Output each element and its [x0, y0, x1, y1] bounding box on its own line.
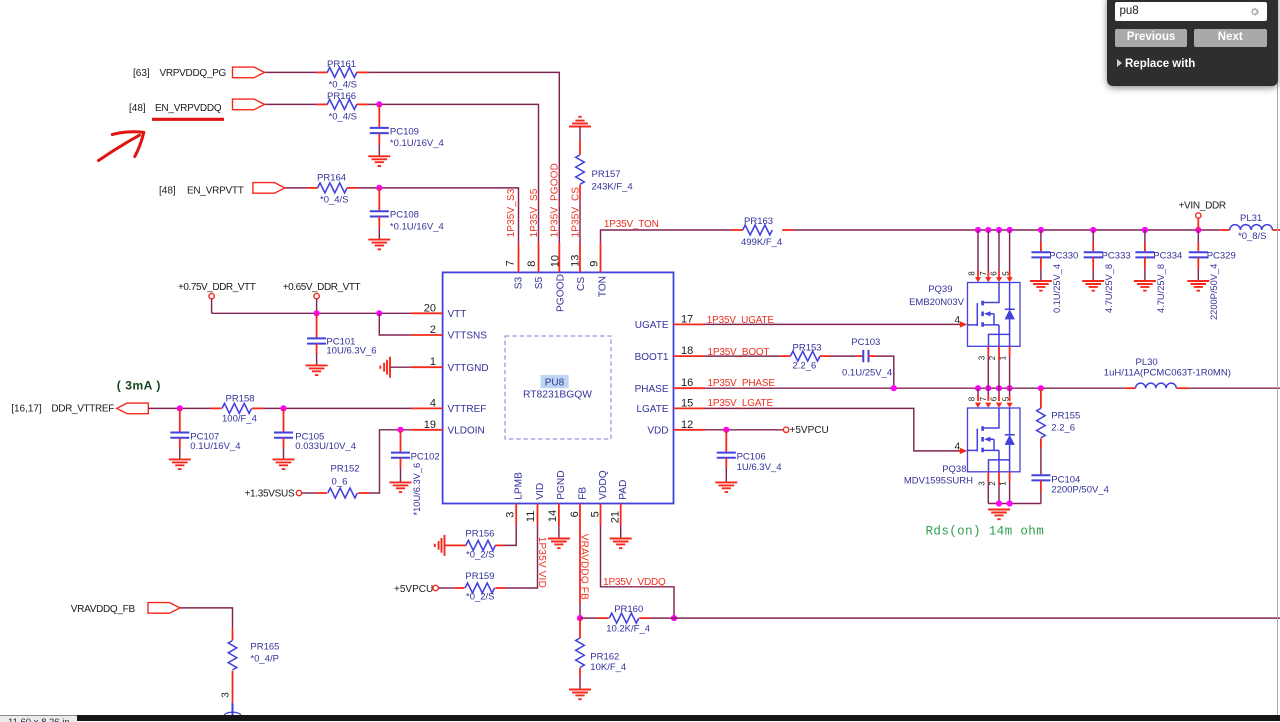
- svg-text:VLDOIN: VLDOIN: [448, 426, 485, 437]
- capacitor PC102: [400, 430, 402, 452]
- svg-text:6: 6: [569, 511, 581, 517]
- annotation red underline: [152, 118, 224, 121]
- svg-text:PR153: PR153: [793, 343, 822, 354]
- svg-text:9: 9: [589, 261, 601, 267]
- svg-text:2: 2: [988, 481, 997, 486]
- svg-text:PL31: PL31: [1240, 213, 1262, 224]
- capacitor PC106: [725, 430, 727, 452]
- Next button: [1194, 29, 1267, 47]
- junction TON/PC329: [1195, 227, 1201, 233]
- svg-text:1P35V_BOOT: 1P35V_BOOT: [708, 347, 770, 358]
- junction VTT/VTTSNS: [376, 310, 382, 316]
- page size indicator box: [0, 715, 77, 722]
- IC pin 4 VTTREF stub: [411, 407, 443, 409]
- svg-text:1P35V_LGATE: 1P35V_LGATE: [708, 398, 774, 409]
- svg-text:4: 4: [955, 441, 961, 452]
- ground below PC105: [273, 459, 295, 469]
- svg-text:5: 5: [590, 511, 602, 517]
- svg-text:17: 17: [681, 313, 693, 325]
- svg-text:PC108: PC108: [390, 210, 419, 221]
- svg-text:6: 6: [990, 396, 999, 401]
- svg-text:*0_4/S: *0_4/S: [320, 195, 349, 206]
- svg-text:1P35V_S5: 1P35V_S5: [529, 188, 540, 237]
- svg-text:1P35V_CS: 1P35V_CS: [570, 187, 581, 238]
- svg-text:[63]: [63]: [133, 68, 150, 79]
- svg-text:4: 4: [430, 397, 436, 409]
- wire PR157 to CS pin: [579, 198, 581, 243]
- svg-text:PAD: PAD: [618, 480, 629, 500]
- wire output net to right edge (y=618.1): [674, 617, 1280, 619]
- svg-text:LGATE: LGATE: [636, 404, 668, 415]
- svg-text:1P35V_PGOOD: 1P35V_PGOOD: [550, 163, 561, 237]
- svg-text:PR157: PR157: [592, 169, 621, 180]
- annotation hand-drawn red arrow: [99, 132, 144, 161]
- ground below PQ38: [988, 510, 1010, 520]
- svg-text:100/F_4: 100/F_4: [222, 413, 257, 424]
- svg-text:+5VPCU: +5VPCU: [394, 584, 433, 595]
- wire EN_VRPVTT net (y=187.9): [284, 187, 306, 189]
- ground at PAD pin 21: [620, 526, 622, 539]
- svg-text:1P35V_PHASE: 1P35V_PHASE: [708, 378, 776, 389]
- wire PR164 to S3 pin: [358, 188, 519, 243]
- svg-text:21: 21: [609, 511, 621, 523]
- wire VDDQ to 1P35V_VDDQ: [601, 526, 675, 619]
- junction TON/PQ39-7: [985, 227, 991, 233]
- ground below PR162: [569, 690, 591, 700]
- svg-text:243K/F_4: 243K/F_4: [592, 182, 633, 193]
- svg-text:7: 7: [979, 271, 988, 276]
- junction TON/PQ39-6: [996, 227, 1002, 233]
- wire PR166 to S5 pin: [369, 104, 539, 242]
- svg-text:S5: S5: [534, 277, 545, 290]
- page right edge line: [1277, 0, 1278, 715]
- wire PQ38 source ground bus: [988, 503, 1041, 505]
- ground below PC107: [169, 459, 191, 469]
- svg-text:*0_4/S: *0_4/S: [329, 80, 358, 91]
- capacitor PC329: [1197, 230, 1199, 242]
- junction VTTREF/PC105: [280, 405, 286, 411]
- svg-text:VTTREF: VTTREF: [448, 404, 487, 415]
- capacitor PC104: [1031, 475, 1050, 480]
- off-page connector DDR_VTTREF: [117, 403, 149, 414]
- wire PR156 to LPMB pin 3: [505, 526, 516, 546]
- capacitor PC330: [1040, 230, 1042, 242]
- junction VDDQ/PR160/output: [671, 615, 677, 621]
- junction TON/PC333: [1090, 227, 1096, 233]
- IC pin 17 UGATE stub: [674, 323, 706, 325]
- svg-text:TON: TON: [597, 276, 608, 297]
- wire PR158 to VTTREF pin: [263, 407, 411, 409]
- svg-text:7: 7: [505, 260, 517, 266]
- svg-text:10.2K/F_4: 10.2K/F_4: [606, 624, 650, 635]
- signal ground at VTTGND pin 1: [380, 357, 390, 378]
- svg-text:PR159: PR159: [465, 571, 494, 582]
- capacitor PC108: [378, 188, 380, 211]
- svg-text:PR162: PR162: [590, 651, 619, 662]
- ground below PC106: [715, 482, 737, 492]
- svg-text:VDDQ: VDDQ: [598, 470, 609, 500]
- svg-text:0.1U/25V_4: 0.1U/25V_4: [1052, 264, 1062, 313]
- svg-text:CS: CS: [576, 277, 587, 291]
- svg-text:PC330: PC330: [1049, 251, 1078, 262]
- resistor PR160: [580, 617, 597, 619]
- svg-text:2200P/50V_4: 2200P/50V_4: [1051, 485, 1109, 496]
- svg-text:1P35V_S3: 1P35V_S3: [506, 188, 517, 237]
- svg-text:10U/6.3V_6: 10U/6.3V_6: [326, 346, 376, 357]
- svg-text:PQ38: PQ38: [942, 464, 966, 475]
- svg-text:PR163: PR163: [744, 216, 773, 227]
- junction PHASE/PQ39-3: [985, 385, 991, 391]
- svg-text:+1.35VSUS: +1.35VSUS: [245, 489, 295, 500]
- svg-text:PC102: PC102: [411, 452, 440, 463]
- ground below PC333: [1082, 281, 1104, 291]
- IC pin 20 VTT stub: [411, 312, 443, 314]
- svg-text:*0.1U/16V_4: *0.1U/16V_4: [390, 222, 444, 233]
- junction PHASE/PQ38-8: [975, 385, 981, 391]
- svg-text:EN_VRPVDDQ: EN_VRPVDDQ: [155, 103, 222, 114]
- svg-text:18: 18: [681, 345, 693, 357]
- IC bottom pin stubs 3 11 14 6 5 21: [515, 504, 517, 526]
- svg-text:11: 11: [525, 511, 537, 522]
- bottom black bar: [0, 715, 1280, 721]
- svg-text:3: 3: [977, 481, 986, 486]
- partial component below PR165 (cut off): [232, 703, 234, 715]
- IC top pin stubs 7 8 10 13 9: [518, 243, 520, 273]
- svg-text:PC109: PC109: [390, 126, 419, 137]
- svg-text:VTTGND: VTTGND: [448, 363, 489, 374]
- svg-text:PGND: PGND: [556, 470, 567, 499]
- Replace with row: [1117, 58, 1196, 70]
- IC pin 19 VLDOIN stub: [411, 429, 443, 431]
- svg-text:VRAVDDQ_FB: VRAVDDQ_FB: [71, 604, 136, 615]
- svg-text:1P35V_VDDQ: 1P35V_VDDQ: [603, 577, 666, 588]
- wires PQ38 top pin drops: [977, 388, 979, 395]
- svg-text:1P35V_TON: 1P35V_TON: [604, 219, 659, 230]
- svg-text:PR156: PR156: [465, 529, 494, 540]
- search input: [1115, 2, 1267, 22]
- svg-text:+0.65V_DDR_VTT: +0.65V_DDR_VTT: [283, 282, 361, 293]
- svg-text:[48]: [48]: [129, 103, 146, 114]
- svg-text:PGOOD: PGOOD: [555, 274, 566, 312]
- svg-text:2: 2: [430, 324, 436, 336]
- wire VLDOIN net: [369, 430, 411, 493]
- svg-text:10: 10: [549, 255, 561, 267]
- svg-text:PR160: PR160: [614, 604, 643, 615]
- ground below PC109: [368, 156, 390, 166]
- wire PR161 to PGOOD pin: [369, 72, 560, 242]
- svg-text:2.2_6: 2.2_6: [793, 360, 817, 371]
- svg-text:PR166: PR166: [327, 91, 356, 102]
- svg-text:1: 1: [999, 355, 1008, 360]
- svg-text:PC106: PC106: [737, 452, 766, 463]
- transistor PQ39 EMB20N03V body: [968, 283, 1021, 347]
- ground below PC102: [390, 482, 412, 492]
- resistor PR158: [211, 407, 222, 409]
- svg-text:[16,17]: [16,17]: [11, 403, 42, 414]
- svg-text:VRPVDDQ_PG: VRPVDDQ_PG: [160, 68, 227, 79]
- svg-text:*0_4/P: *0_4/P: [250, 654, 279, 665]
- svg-text:2.2_6: 2.2_6: [1051, 423, 1075, 434]
- IC pin 16 PHASE stub: [674, 387, 706, 389]
- svg-text:PR158: PR158: [226, 394, 255, 405]
- svg-text:*0.1U/16V_4: *0.1U/16V_4: [390, 138, 444, 149]
- svg-text:+VIN_DDR: +VIN_DDR: [1179, 201, 1226, 212]
- svg-text:MDV1595SURH: MDV1595SURH: [904, 475, 973, 486]
- resistor PR165: [232, 629, 234, 640]
- svg-text:RT8231BGQW: RT8231BGQW: [523, 389, 592, 400]
- resistor PR163: [731, 229, 743, 231]
- svg-text:4.7U/25V_8: 4.7U/25V_8: [1156, 264, 1166, 313]
- svg-text:PR164: PR164: [317, 173, 346, 184]
- IC pin 1 VTTGND stub: [411, 366, 443, 368]
- capacitor PC105: [283, 408, 285, 431]
- svg-text:13: 13: [569, 255, 581, 267]
- junction VLDOIN/PC102: [397, 427, 403, 433]
- off-page connector EN_VRPVTT: [253, 183, 285, 194]
- wire VTT bus (y=313.3): [212, 312, 412, 314]
- resistor PR155: [1040, 388, 1042, 408]
- svg-text:2200P/50V_4: 2200P/50V_4: [1209, 264, 1219, 320]
- wires PQ39 bottom pins to PHASE: [987, 346, 989, 357]
- junction TON/PC330: [1038, 227, 1044, 233]
- svg-text:4.7U/25V_8: 4.7U/25V_8: [1104, 264, 1114, 313]
- svg-text:8: 8: [967, 396, 976, 401]
- wire 1P35V_BOOT net: [705, 355, 780, 357]
- wire TON bus to +VIN_DDR and PL31: [794, 229, 1220, 231]
- svg-text:( 3mA ): ( 3mA ): [117, 379, 161, 393]
- IC pin 12 VDD stub: [674, 429, 706, 431]
- wire 1P35V_UGATE net: [705, 323, 960, 325]
- svg-text:PR155: PR155: [1051, 411, 1080, 422]
- svg-text:UGATE: UGATE: [635, 320, 669, 331]
- svg-text:VID: VID: [535, 483, 546, 500]
- resistor PR152: [302, 492, 317, 494]
- svg-text:VDD: VDD: [647, 426, 668, 437]
- junction FB/PR160/PR162: [577, 615, 583, 621]
- resistor PR161: [316, 71, 327, 73]
- svg-text:PC334: PC334: [1153, 251, 1182, 262]
- svg-text:LPMB: LPMB: [514, 472, 525, 500]
- svg-text:EN_VRPVTT: EN_VRPVTT: [187, 186, 244, 197]
- svg-text:8: 8: [967, 271, 976, 276]
- capacitor PC103: [856, 355, 863, 357]
- svg-text:PR152: PR152: [331, 464, 360, 475]
- junction TON/PQ39-8: [975, 227, 981, 233]
- svg-text:5: 5: [1001, 271, 1010, 276]
- capacitor PC101: [316, 313, 318, 337]
- junction VTTREF/PC107: [177, 405, 183, 411]
- wire 1P35V_TON net (y=230): [601, 230, 732, 243]
- off-page connector EN_VRPVDDQ: [233, 99, 265, 110]
- svg-text:14: 14: [547, 510, 559, 522]
- svg-text:0.1U/25V_4: 0.1U/25V_4: [842, 368, 892, 379]
- wire 1P35V_LGATE net: [705, 408, 958, 451]
- svg-text:PHASE: PHASE: [635, 384, 669, 395]
- junction PHASE/PQ39-2: [996, 385, 1002, 391]
- capacitor PC109: [378, 104, 380, 127]
- junction bus/PQ38-1: [1007, 500, 1013, 506]
- signal ground at LPMB pin: [435, 535, 445, 556]
- svg-text:[48]: [48]: [159, 186, 176, 197]
- IC pin 18 BOOT1 stub: [674, 355, 706, 357]
- svg-text:*0_4/S: *0_4/S: [329, 112, 358, 123]
- wires PQ38 bottom pins to ground bus: [987, 472, 989, 482]
- resistor PR164: [307, 187, 318, 189]
- svg-text:PC103: PC103: [851, 337, 880, 348]
- svg-text:1: 1: [999, 481, 1008, 486]
- svg-text:0.1U/16V_4: 0.1U/16V_4: [190, 441, 240, 452]
- junction PHASE/PQ39-1: [1007, 385, 1013, 391]
- resistor PR159: [438, 587, 454, 589]
- svg-text:PL30: PL30: [1136, 357, 1158, 368]
- wire PR159 to VID pin 11: [506, 526, 538, 589]
- svg-text:VTTSNS: VTTSNS: [448, 331, 488, 342]
- wire VRPVDDQ_PG net (y=72.4): [264, 71, 316, 73]
- svg-text:8: 8: [526, 261, 538, 267]
- svg-text:3: 3: [221, 692, 232, 698]
- svg-text:PC333: PC333: [1102, 251, 1131, 262]
- inductor PL31: [1220, 229, 1230, 231]
- ground below PC101: [306, 365, 328, 375]
- resistor PR162: [579, 618, 581, 638]
- svg-text:+5VPCU: +5VPCU: [790, 425, 829, 436]
- off-page connector VRAVDDQ_FB: [148, 603, 180, 614]
- svg-text:15: 15: [681, 397, 693, 409]
- junction PHASE/PC103: [891, 385, 897, 391]
- junction bus/PQ38-2: [996, 500, 1002, 506]
- svg-text:1P35V_UGATE: 1P35V_UGATE: [707, 315, 775, 326]
- svg-text:7: 7: [979, 396, 988, 401]
- svg-text:1: 1: [430, 356, 436, 368]
- power tap +5VPCU (VDD): [783, 427, 788, 432]
- svg-text:+0.75V_DDR_VTT: +0.75V_DDR_VTT: [178, 282, 256, 293]
- svg-text:FB: FB: [577, 487, 588, 500]
- svg-text:16: 16: [681, 377, 693, 389]
- junction VDD/PC106: [723, 427, 729, 433]
- wire FB column down to PR162: [579, 526, 581, 605]
- svg-text:VTT: VTT: [448, 309, 467, 320]
- resistor PR166: [316, 103, 327, 105]
- wire VTTSNS drop: [379, 313, 411, 335]
- svg-text:*0_2/S: *0_2/S: [466, 550, 495, 561]
- svg-text:PR161: PR161: [327, 59, 356, 70]
- wire PR153 to PC103: [831, 355, 856, 357]
- svg-text:Rds(on) 14m ohm: Rds(on) 14m ohm: [926, 525, 1045, 539]
- wire VDD to +5VPCU: [705, 429, 783, 431]
- ground at PGND pin 14: [558, 526, 560, 539]
- svg-text:20: 20: [424, 302, 436, 314]
- wire VRAVDDQ_FB to PR165: [180, 608, 233, 629]
- ground below PC330: [1030, 281, 1052, 291]
- svg-text:12: 12: [681, 419, 693, 431]
- capacitor PC107: [179, 408, 181, 431]
- inductor PL30: [1125, 387, 1135, 389]
- resistor PR157: [579, 127, 581, 141]
- svg-text:PC329: PC329: [1207, 251, 1236, 262]
- off-page connector VRPVDDQ_PG: [233, 67, 265, 78]
- resistor PR156: [445, 544, 456, 546]
- capacitor PC334: [1144, 230, 1146, 242]
- ground below PC108: [368, 240, 390, 250]
- IC pin 15 LGATE stub: [674, 407, 706, 409]
- svg-text:BOOT1: BOOT1: [635, 352, 669, 363]
- wire PC103 to PHASE: [877, 356, 894, 388]
- svg-text:3: 3: [504, 512, 516, 518]
- svg-text:1U/6.3V_4: 1U/6.3V_4: [737, 462, 782, 473]
- ground below PC334: [1134, 281, 1156, 291]
- junction TON/PQ39-5: [1007, 227, 1013, 233]
- junction PR164/PC108: [376, 185, 382, 191]
- junction VTT/PC101: [314, 310, 320, 316]
- search highlight on PU8: [541, 375, 569, 388]
- svg-text:PR165: PR165: [250, 642, 279, 653]
- op-amp U1 -- IC PU8 RT8231BGQW body: [443, 272, 674, 503]
- svg-text:S3: S3: [514, 277, 525, 290]
- Previous button: [1115, 29, 1187, 47]
- IC pin 2 VTTSNS stub: [411, 334, 443, 336]
- svg-text:499K/F_4: 499K/F_4: [741, 237, 782, 248]
- transistor PQ38 MDV1595SURH body: [968, 408, 1021, 472]
- ground below PC329: [1187, 281, 1209, 291]
- wire DDR_VTTREF to PR158: [148, 407, 210, 409]
- ground above PR157: [569, 117, 591, 127]
- svg-text:4: 4: [955, 315, 961, 326]
- wire EN_VRPVDDQ net (y=104.4): [264, 103, 316, 105]
- junction PR166/PC109: [376, 101, 382, 107]
- wire 1P35V_PHASE net: [705, 387, 1125, 389]
- svg-text:2: 2: [988, 355, 997, 360]
- svg-text:*10U/6.3V_6: *10U/6.3V_6: [412, 463, 422, 516]
- svg-text:10K/F_4: 10K/F_4: [590, 662, 626, 673]
- svg-text:5: 5: [1001, 396, 1010, 401]
- junction TON/PC334: [1142, 227, 1148, 233]
- find/replace panel: [1107, 0, 1278, 86]
- gear icon: [1249, 6, 1261, 18]
- svg-text:6: 6: [990, 271, 999, 276]
- svg-text:19: 19: [424, 419, 436, 431]
- svg-text:0_6: 0_6: [332, 477, 348, 488]
- svg-text:0.033U/10V_4: 0.033U/10V_4: [295, 441, 356, 452]
- wires PQ39 top pin drops: [977, 230, 979, 271]
- svg-text:3: 3: [977, 355, 986, 360]
- svg-text:*0_8/S: *0_8/S: [1238, 231, 1267, 242]
- svg-text:*0_2/S: *0_2/S: [466, 592, 495, 603]
- svg-text:DDR_VTTREF: DDR_VTTREF: [51, 403, 114, 414]
- resistor PR153: [780, 355, 791, 357]
- svg-text:1uH/11A(PCMC063T-1R0MN): 1uH/11A(PCMC063T-1R0MN): [1104, 368, 1231, 379]
- junction PHASE/PR155: [1038, 385, 1044, 391]
- IC PU8 dashed value box: [505, 336, 611, 439]
- svg-text:PU8: PU8: [545, 377, 565, 388]
- svg-text:PQ39: PQ39: [928, 284, 952, 295]
- capacitor PC333: [1092, 230, 1094, 242]
- svg-text:EMB20N03V: EMB20N03V: [909, 297, 965, 308]
